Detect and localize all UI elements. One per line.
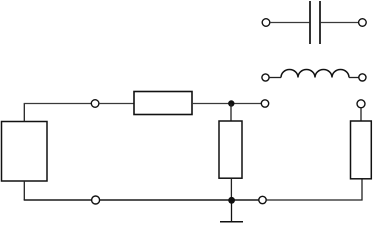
wire (load top lead) (360, 108, 362, 121)
capacitor plate right (319, 1, 321, 44)
wire (capacitor right lead) (321, 22, 359, 24)
resistor R1 (series, horizontal) (134, 92, 192, 115)
wire (capacitor left lead) (270, 22, 309, 24)
wire (top stub from P1) (23, 104, 25, 122)
junction dot (top node A) (228, 100, 234, 106)
terminal circle (top right open) (261, 100, 268, 107)
wire (top rail left segment) (24, 103, 92, 105)
junction dot (bottom node B) (228, 197, 235, 204)
terminal circle (load top) (357, 100, 365, 108)
terminal circle (capacitor right) (359, 19, 367, 27)
node circle (top input) (91, 100, 99, 108)
resistor R3 (load, vertical) (351, 121, 372, 179)
capacitor plate left (309, 1, 311, 44)
wire (inductor right lead) (349, 77, 359, 79)
wire (bottom rail right segment) (266, 179, 362, 200)
inductor coil arcs (281, 70, 349, 78)
wire (top rail R1 to open terminal) (192, 103, 261, 105)
capacitor C1 (262, 1, 366, 44)
terminal circle (bottom right open) (259, 196, 266, 203)
wire (bottom rail left segment) (24, 199, 92, 201)
resistor R2 (shunt, vertical) (219, 121, 242, 178)
wire (bottom stub from P1) (23, 181, 25, 200)
ground bar (220, 221, 243, 223)
terminal circle (inductor right) (359, 74, 366, 81)
wire (node A down to R2) (230, 104, 232, 122)
node circle (bottom input) (92, 196, 100, 204)
wire (bottom rail middle segment) (100, 199, 259, 201)
wire (ground stem) (231, 200, 233, 222)
inductor L1 (262, 70, 366, 82)
wire (R2 down to bottom rail) (230, 178, 232, 200)
terminal circle (inductor left) (262, 74, 269, 81)
ground (220, 200, 243, 222)
wire (top rail to R1) (99, 103, 134, 105)
terminal circle (capacitor left) (262, 19, 270, 27)
port block P1 (left two-port box) (2, 122, 48, 182)
wire (inductor left lead) (269, 77, 281, 79)
